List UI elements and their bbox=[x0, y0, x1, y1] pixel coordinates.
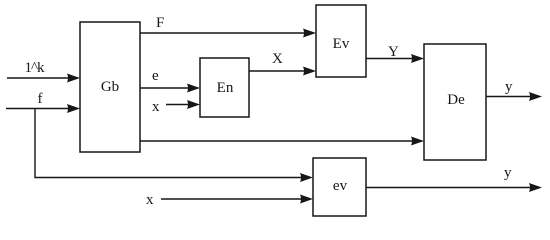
wire y output from ev bbox=[366, 183, 542, 192]
svg-text:Ev: Ev bbox=[333, 36, 350, 52]
svg-text:Y: Y bbox=[388, 44, 399, 60]
wire Y from Ev to De bbox=[366, 54, 424, 63]
block Ev bbox=[316, 5, 366, 77]
svg-text:y: y bbox=[504, 165, 512, 181]
wire f branch down and right into ev bbox=[35, 109, 313, 183]
svg-text:En: En bbox=[217, 80, 234, 96]
svg-text:ev: ev bbox=[333, 178, 348, 194]
wire e from Gb to En bbox=[140, 84, 200, 93]
svg-text:Gb: Gb bbox=[101, 79, 119, 95]
block ev bbox=[313, 158, 366, 216]
block Gb bbox=[80, 22, 140, 152]
wire X from En to Ev bbox=[249, 67, 316, 76]
svg-text:f: f bbox=[38, 91, 43, 107]
svg-text:e: e bbox=[152, 68, 159, 84]
svg-text:x: x bbox=[146, 192, 154, 208]
svg-text:X: X bbox=[272, 51, 283, 67]
wire x input into ev bbox=[161, 195, 313, 204]
svg-text:De: De bbox=[447, 92, 465, 108]
wire 1^k input into Gb bbox=[7, 74, 80, 83]
svg-text:x: x bbox=[152, 99, 160, 115]
wire F from Gb to Ev bbox=[140, 29, 316, 38]
wire x input into En bbox=[166, 100, 200, 109]
svg-text:y: y bbox=[505, 79, 513, 95]
wire from Gb bottom to De bbox=[140, 137, 424, 146]
block De bbox=[424, 44, 486, 160]
wire y output from De bbox=[486, 92, 542, 101]
svg-text:1^k: 1^k bbox=[25, 60, 46, 76]
block En bbox=[200, 58, 249, 117]
svg-text:F: F bbox=[156, 15, 164, 31]
wire f input into Gb bbox=[6, 104, 80, 113]
